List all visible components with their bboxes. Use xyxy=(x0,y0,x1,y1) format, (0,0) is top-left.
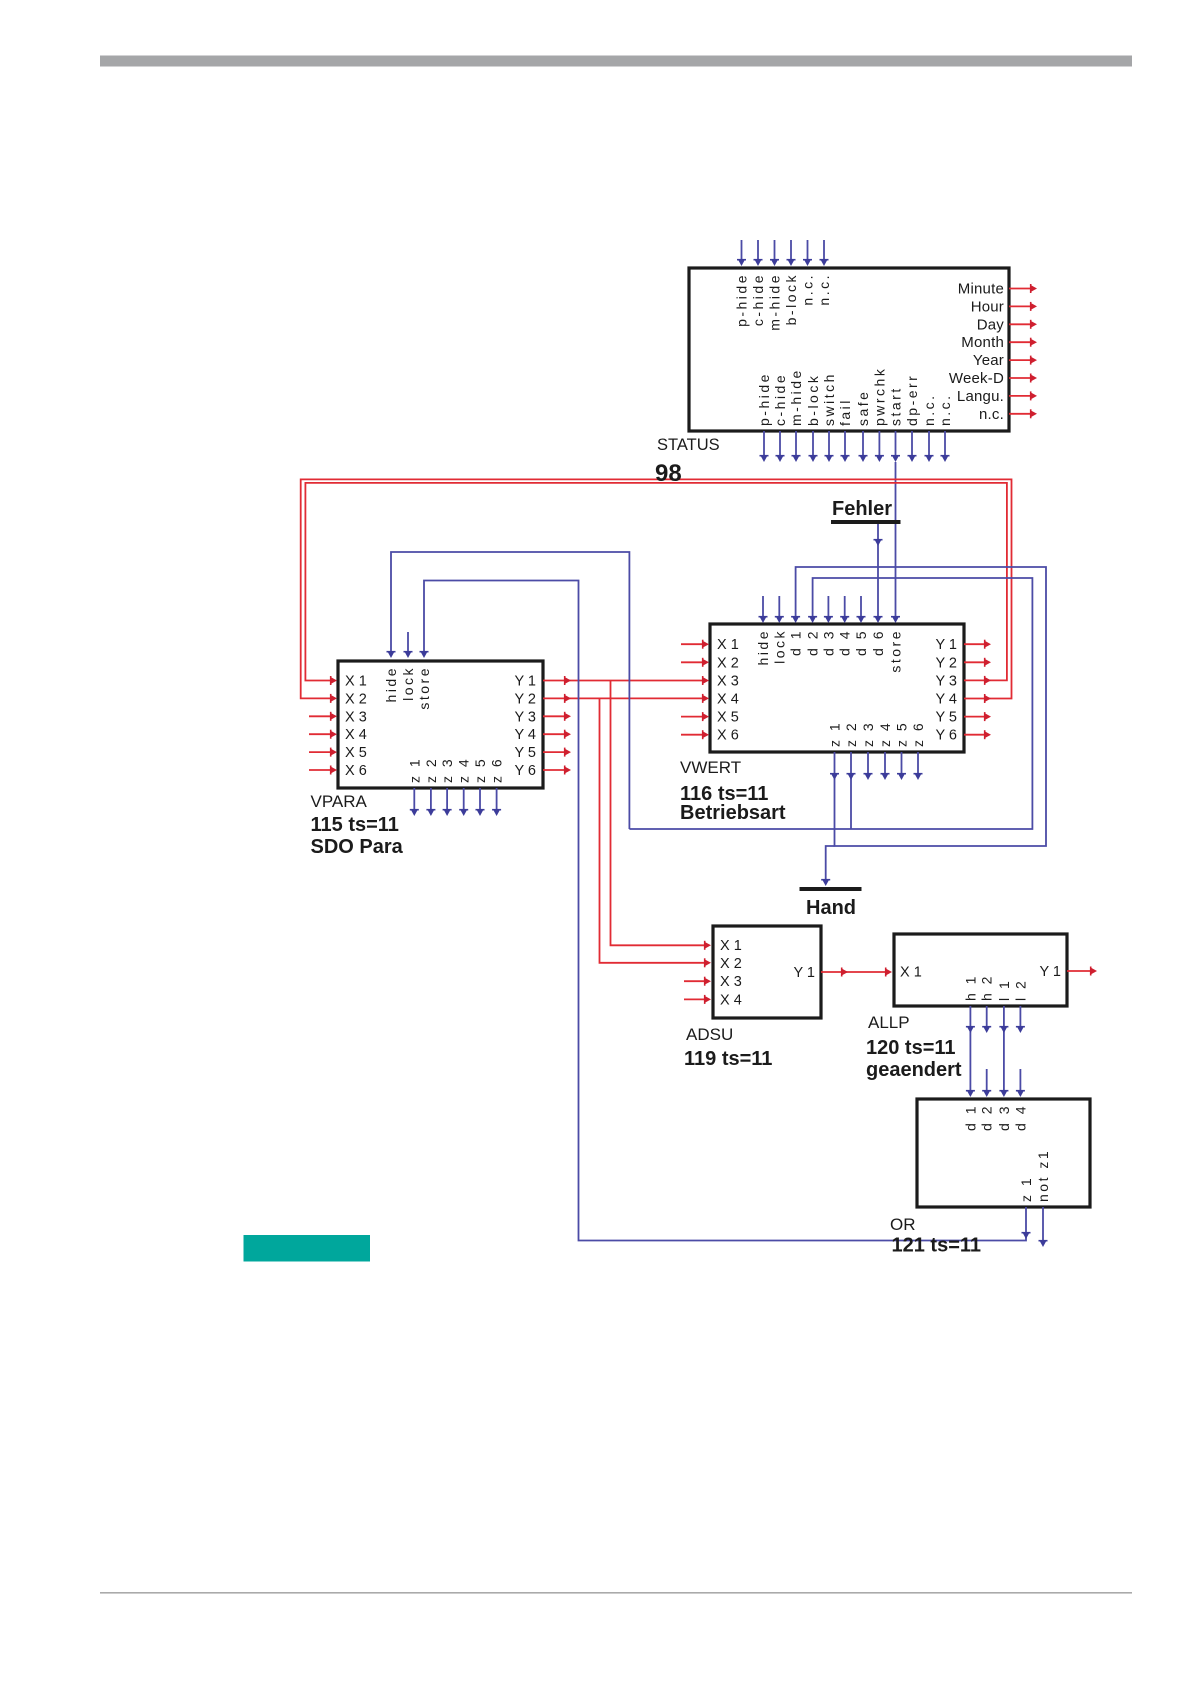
svg-text:Y 3: Y 3 xyxy=(514,709,536,725)
svg-text:X 2: X 2 xyxy=(717,655,739,671)
svg-text:Minute: Minute xyxy=(958,281,1004,298)
svg-text:Y 5: Y 5 xyxy=(935,710,957,726)
svg-text:OR: OR xyxy=(890,1215,916,1234)
svg-text:X 6: X 6 xyxy=(345,763,367,779)
svg-text:n.c.: n.c. xyxy=(921,393,937,426)
svg-text:b-lock: b-lock xyxy=(783,273,799,325)
svg-text:Month: Month xyxy=(961,334,1004,351)
svg-text:Fehler: Fehler xyxy=(832,498,892,520)
svg-text:dp-err: dp-err xyxy=(904,374,920,426)
svg-text:c-hide: c-hide xyxy=(750,273,766,326)
svg-text:l 2: l 2 xyxy=(1012,979,1028,1001)
svg-text:X 1: X 1 xyxy=(900,965,922,981)
svg-text:z 1: z 1 xyxy=(406,757,422,783)
svg-text:ADSU: ADSU xyxy=(686,1025,733,1044)
svg-text:X 4: X 4 xyxy=(720,992,742,1008)
svg-text:n.c.: n.c. xyxy=(816,273,832,306)
svg-text:d 2: d 2 xyxy=(979,1104,995,1131)
svg-text:z 5: z 5 xyxy=(472,757,488,783)
svg-text:Y 4: Y 4 xyxy=(514,727,536,743)
svg-text:Week-D: Week-D xyxy=(949,370,1004,387)
svg-text:b-lock: b-lock xyxy=(805,374,821,426)
svg-text:z 6: z 6 xyxy=(489,757,505,783)
svg-text:X 3: X 3 xyxy=(720,974,742,990)
svg-text:lock: lock xyxy=(400,666,416,701)
svg-text:l 1: l 1 xyxy=(996,979,1012,1001)
svg-text:Y 2: Y 2 xyxy=(514,691,536,707)
svg-text:z 1: z 1 xyxy=(827,721,843,747)
svg-text:Y 1: Y 1 xyxy=(1039,964,1061,980)
svg-text:fail: fail xyxy=(837,398,853,426)
svg-text:n.c.: n.c. xyxy=(800,273,816,306)
svg-text:X 2: X 2 xyxy=(720,956,742,972)
svg-text:p-hide: p-hide xyxy=(734,273,750,327)
svg-text:Y 6: Y 6 xyxy=(514,763,536,779)
svg-text:safe: safe xyxy=(855,390,871,426)
svg-text:d 4: d 4 xyxy=(837,629,853,656)
svg-text:SDO Para: SDO Para xyxy=(311,836,404,858)
svg-text:Hour: Hour xyxy=(971,298,1004,315)
svg-text:switch: switch xyxy=(821,372,837,426)
svg-text:d 5: d 5 xyxy=(853,629,869,656)
svg-text:m-hide: m-hide xyxy=(767,273,783,331)
svg-text:Day: Day xyxy=(977,316,1005,333)
svg-text:d 4: d 4 xyxy=(1012,1104,1028,1131)
svg-text:VPARA: VPARA xyxy=(311,792,368,811)
svg-text:Hand: Hand xyxy=(806,897,856,919)
svg-text:pwrchk: pwrchk xyxy=(871,367,887,426)
svg-text:h 2: h 2 xyxy=(979,974,995,1001)
svg-text:X 3: X 3 xyxy=(345,709,367,725)
svg-text:Y 6: Y 6 xyxy=(935,728,957,744)
svg-text:X 5: X 5 xyxy=(345,745,367,761)
svg-text:X 3: X 3 xyxy=(717,673,739,689)
svg-text:hide: hide xyxy=(383,666,399,702)
svg-text:Y 3: Y 3 xyxy=(935,673,957,689)
svg-text:not z1: not z1 xyxy=(1035,1149,1051,1202)
svg-text:d 2: d 2 xyxy=(805,629,821,656)
svg-text:98: 98 xyxy=(655,460,682,487)
svg-text:d 1: d 1 xyxy=(962,1104,978,1131)
svg-text:X 2: X 2 xyxy=(345,691,367,707)
svg-text:X 5: X 5 xyxy=(717,710,739,726)
svg-text:store: store xyxy=(416,666,432,710)
svg-text:X 6: X 6 xyxy=(717,728,739,744)
svg-text:z 2: z 2 xyxy=(423,757,439,783)
svg-text:Langu.: Langu. xyxy=(957,388,1004,405)
svg-text:z 3: z 3 xyxy=(860,721,876,747)
svg-text:121 ts=11: 121 ts=11 xyxy=(892,1235,982,1257)
svg-text:VWERT: VWERT xyxy=(680,758,741,777)
svg-text:z 6: z 6 xyxy=(910,721,926,747)
svg-text:X 1: X 1 xyxy=(720,938,742,954)
svg-text:119 ts=11: 119 ts=11 xyxy=(684,1048,772,1070)
svg-text:X 4: X 4 xyxy=(717,692,739,708)
svg-text:store: store xyxy=(888,629,904,673)
svg-text:Betriebsart: Betriebsart xyxy=(680,802,786,824)
svg-text:geaendert: geaendert xyxy=(866,1059,962,1081)
svg-text:z 2: z 2 xyxy=(843,721,859,747)
svg-text:Y 1: Y 1 xyxy=(514,674,536,690)
svg-text:Y 5: Y 5 xyxy=(514,745,536,761)
svg-text:ALLP: ALLP xyxy=(868,1013,910,1032)
svg-text:p-hide: p-hide xyxy=(756,372,772,426)
svg-text:z 4: z 4 xyxy=(456,757,472,783)
svg-text:STATUS: STATUS xyxy=(657,436,720,454)
svg-text:h 1: h 1 xyxy=(962,974,978,1001)
svg-text:X 4: X 4 xyxy=(345,727,367,743)
svg-text:120 ts=11: 120 ts=11 xyxy=(866,1037,956,1059)
svg-text:d 6: d 6 xyxy=(870,629,886,656)
svg-text:z 5: z 5 xyxy=(894,721,910,747)
svg-text:z 1: z 1 xyxy=(1018,1176,1034,1202)
svg-text:n.c.: n.c. xyxy=(937,393,953,426)
svg-text:115 ts=11: 115 ts=11 xyxy=(311,814,399,836)
svg-text:Y 1: Y 1 xyxy=(793,965,815,981)
svg-text:X 1: X 1 xyxy=(717,637,739,653)
svg-text:c-hide: c-hide xyxy=(772,373,788,426)
svg-text:X 1: X 1 xyxy=(345,674,367,690)
svg-text:Y 4: Y 4 xyxy=(935,692,957,708)
svg-text:start: start xyxy=(888,386,904,426)
svg-text:d 3: d 3 xyxy=(820,629,836,656)
svg-text:z 3: z 3 xyxy=(439,757,455,783)
svg-text:Y 1: Y 1 xyxy=(935,637,957,653)
svg-text:z 4: z 4 xyxy=(877,721,893,747)
svg-text:Y 2: Y 2 xyxy=(935,655,957,671)
svg-text:hide: hide xyxy=(755,629,771,665)
svg-text:d 3: d 3 xyxy=(996,1104,1012,1131)
svg-text:Year: Year xyxy=(973,352,1004,369)
svg-text:d 1: d 1 xyxy=(788,629,804,656)
svg-text:n.c.: n.c. xyxy=(979,406,1004,423)
svg-text:lock: lock xyxy=(771,629,787,664)
svg-text:m-hide: m-hide xyxy=(788,368,804,426)
